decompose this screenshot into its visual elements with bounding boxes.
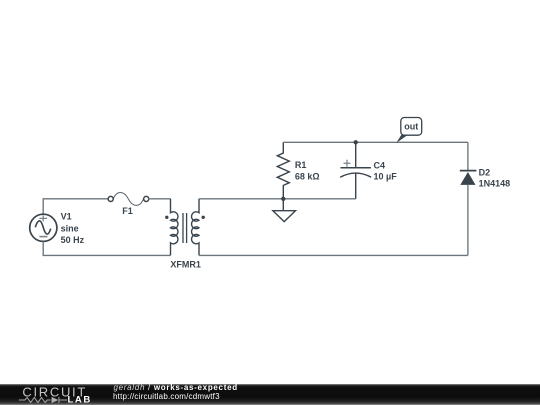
svg-text:C4: C4 bbox=[374, 160, 386, 170]
wire V1 negative terminal to transformer primary bottom bbox=[43, 241, 170, 255]
secondary winding bbox=[192, 199, 199, 256]
diode D2 bbox=[460, 142, 477, 255]
D2 labels bbox=[479, 167, 511, 188]
C4 labels bbox=[374, 160, 398, 181]
node out flag bbox=[396, 118, 421, 143]
svg-text:XFMR1: XFMR1 bbox=[170, 259, 201, 269]
svg-text:sine: sine bbox=[61, 224, 79, 234]
polarity dot secondary bbox=[202, 216, 205, 219]
wire transformer secondary bottom to D2 anode bbox=[199, 254, 468, 256]
svg-text:68 kΩ: 68 kΩ bbox=[295, 171, 320, 181]
footer bar bbox=[0, 384, 540, 405]
transformer XFMR1 bbox=[165, 199, 205, 256]
svg-text:out: out bbox=[404, 122, 418, 132]
junction dot at C4 top bbox=[354, 140, 358, 144]
wire transformer secondary top to RC ground node (mid rail) bbox=[199, 198, 356, 200]
svg-text:F1: F1 bbox=[122, 206, 133, 216]
svg-text:1N4148: 1N4148 bbox=[479, 179, 511, 189]
resistor R1 bbox=[277, 142, 289, 199]
footer credit text line 2 bbox=[113, 392, 220, 401]
svg-text:LAB: LAB bbox=[68, 394, 92, 405]
svg-text:V1: V1 bbox=[61, 212, 72, 222]
wire V1 positive terminal to fuse F1 left terminal bbox=[43, 199, 108, 214]
core bbox=[183, 213, 187, 243]
svg-text:D2: D2 bbox=[479, 167, 491, 177]
svg-text:R1: R1 bbox=[295, 160, 307, 170]
junction dot at R1 bottom bbox=[281, 197, 285, 201]
plus sign bbox=[344, 160, 351, 167]
footer credit text line 1 bbox=[114, 383, 238, 392]
primary winding bbox=[171, 199, 178, 256]
voltage source V1 bbox=[30, 214, 57, 241]
wire top rail R1 to C4 to D2 bbox=[283, 141, 468, 143]
wire fuse F1 to transformer primary top bbox=[148, 198, 170, 200]
ground bbox=[273, 199, 296, 222]
R1 labels bbox=[295, 160, 320, 182]
polarity dot primary bbox=[165, 216, 168, 219]
V1 labels bbox=[61, 212, 85, 246]
capacitor C4 bbox=[340, 142, 371, 199]
svg-text:50 Hz: 50 Hz bbox=[61, 235, 85, 245]
CircuitLab logo bbox=[0, 383, 110, 405]
fuse F1 bbox=[108, 192, 149, 205]
svg-text:10 µF: 10 µF bbox=[374, 171, 398, 181]
